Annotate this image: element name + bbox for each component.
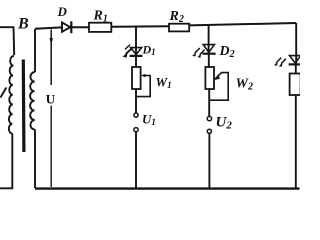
- terminal U1 upper: [134, 113, 138, 117]
- wire R2 to right corner: [189, 23, 296, 25]
- wire D2 to W2: [208, 55, 210, 67]
- resistor R2: [169, 24, 189, 32]
- wire secondary bottom lead: [34, 130, 36, 189]
- LED D3 partial: [290, 56, 301, 63]
- terminal U2 upper: [207, 116, 211, 120]
- potentiometer W2: [205, 67, 214, 89]
- wire branch1 drop: [135, 27, 137, 56]
- voltage arrow U: [50, 30, 52, 86]
- bottom rail: [35, 187, 300, 189]
- transformer secondary winding: [34, 29, 36, 72]
- terminal U2 lower: [207, 129, 211, 133]
- wire R1 to R2: [111, 25, 169, 28]
- wire D1 to W1: [135, 57, 137, 67]
- wire W2 to terminal: [208, 89, 210, 116]
- svg-text:U: U: [46, 92, 56, 107]
- wire top rail left: [35, 27, 62, 28]
- wire U1 to bottom rail: [135, 132, 137, 189]
- transformer primary winding: [9, 56, 14, 134]
- potentiometer W1: [132, 67, 141, 89]
- svg-text:D: D: [57, 4, 68, 19]
- wire primary top lead: [0, 27, 14, 55]
- resistor R1: [89, 23, 111, 32]
- wire diode to R1: [72, 26, 89, 28]
- transformer core: [22, 60, 26, 153]
- input lead stroke: [1, 88, 7, 98]
- wire branch3 drop: [295, 23, 297, 64]
- wire U2 to bottom rail: [208, 134, 210, 189]
- wire primary bottom lead: [0, 134, 12, 189]
- LED D1: [131, 48, 142, 55]
- diode D: [62, 22, 70, 31]
- potentiometer W3 partial: [290, 74, 301, 96]
- wire D3 to W3: [295, 66, 297, 74]
- svg-text:B: B: [17, 16, 29, 33]
- wire W3 to bottom rail: [295, 95, 297, 188]
- wire branch2 drop: [208, 26, 210, 54]
- terminal U1 lower: [134, 128, 138, 132]
- LED D2: [203, 45, 214, 53]
- wire W1 to terminal: [135, 89, 137, 113]
